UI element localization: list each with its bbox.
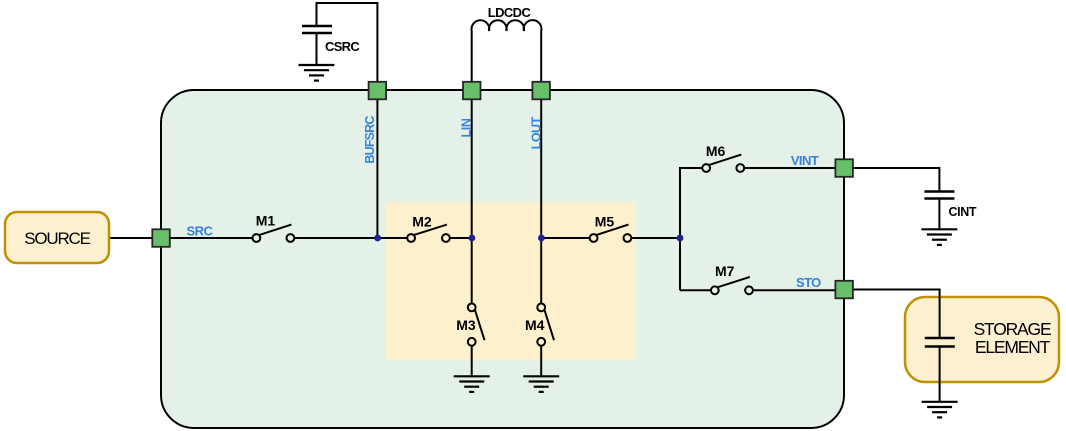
ground (CSRC) bbox=[299, 65, 335, 81]
wire STO pin to storage capacitor bbox=[853, 290, 940, 339]
svg-text:M6: M6 bbox=[706, 143, 726, 159]
pin STO bbox=[835, 281, 853, 299]
svg-text:LDCDC: LDCDC bbox=[488, 5, 532, 20]
pin LIN bbox=[463, 82, 481, 100]
switch M3 bbox=[468, 304, 485, 346]
wire node A to M6 bbox=[680, 167, 702, 169]
svg-text:STORAGE: STORAGE bbox=[974, 319, 1051, 339]
svg-text:M1: M1 bbox=[256, 212, 276, 228]
switch M7 bbox=[711, 277, 753, 294]
wire LOUT node to M5 bbox=[541, 237, 589, 239]
svg-text:M3: M3 bbox=[456, 317, 476, 333]
node LOUT junction bbox=[538, 235, 545, 242]
ground (storage element) bbox=[922, 402, 958, 418]
svg-text:STO: STO bbox=[796, 275, 821, 290]
inductor LDCDC bbox=[472, 20, 542, 83]
svg-text:VINT: VINT bbox=[791, 153, 819, 168]
wire storage capacitor to ground bbox=[939, 347, 941, 402]
wire SOURCE to SRC pin bbox=[109, 237, 153, 239]
svg-text:SOURCE: SOURCE bbox=[24, 229, 90, 248]
wire M4 to ground bbox=[540, 346, 542, 376]
switch M1 bbox=[253, 225, 295, 242]
wire SRC pin to M1 bbox=[170, 237, 252, 239]
wire LOUT pin down to M4 bbox=[540, 99, 542, 304]
ground (M4) bbox=[523, 376, 559, 392]
svg-text:ELEMENT: ELEMENT bbox=[975, 337, 1051, 357]
capacitor CINT bbox=[924, 192, 954, 199]
pin BUFSRC bbox=[369, 82, 387, 100]
IC body (chip outline) bbox=[161, 90, 844, 428]
svg-text:M5: M5 bbox=[595, 214, 615, 230]
wire LIN pin down to M3 bbox=[471, 99, 473, 304]
svg-text:M2: M2 bbox=[412, 214, 432, 230]
capacitor (storage element) bbox=[925, 338, 955, 347]
pin LOUT bbox=[532, 82, 550, 100]
wire M2 to LIN node bbox=[450, 237, 472, 239]
wire M3 to ground bbox=[471, 346, 473, 376]
capacitor CSRC bbox=[302, 26, 332, 33]
ground (M3) bbox=[454, 376, 490, 392]
node LIN junction bbox=[469, 235, 476, 242]
DC-DC highlighted region bbox=[385, 202, 636, 360]
wire VINT pin to CINT bbox=[853, 168, 939, 191]
wire M7 to STO pin bbox=[753, 289, 836, 291]
switch M2 bbox=[407, 225, 450, 242]
wire CSRC to ground bbox=[316, 33, 318, 65]
node BUFSRC junction bbox=[374, 235, 381, 242]
svg-text:LOUT: LOUT bbox=[530, 116, 544, 149]
svg-text:SRC: SRC bbox=[187, 223, 214, 238]
svg-text:M4: M4 bbox=[525, 317, 545, 333]
switch M5 bbox=[590, 225, 632, 242]
pin SRC bbox=[152, 229, 170, 247]
node A junction bbox=[677, 235, 684, 242]
switch M4 bbox=[537, 304, 554, 346]
wire node A to M7 bbox=[680, 289, 711, 291]
box SOURCE bbox=[5, 212, 109, 263]
wire CINT to ground bbox=[938, 199, 940, 230]
box STORAGE ELEMENT bbox=[905, 297, 1059, 382]
svg-text:CSRC: CSRC bbox=[325, 39, 360, 54]
svg-text:LIN: LIN bbox=[460, 118, 474, 137]
wire M6 to VINT pin bbox=[744, 167, 836, 169]
wire M5 to node A bbox=[631, 237, 680, 239]
pin VINT bbox=[835, 159, 853, 177]
wire M1 to M2 bbox=[294, 237, 407, 239]
svg-text:M7: M7 bbox=[715, 263, 735, 279]
svg-text:CINT: CINT bbox=[949, 205, 977, 219]
svg-text:BUFSRC: BUFSRC bbox=[363, 116, 377, 164]
ground (CINT) bbox=[921, 229, 957, 245]
switch M6 bbox=[702, 155, 744, 172]
wire node A vertical bbox=[679, 167, 681, 290]
wire BUFSRC pin down to node bbox=[376, 99, 378, 238]
wire BUFSRC pin up and over to CSRC bbox=[317, 3, 378, 82]
